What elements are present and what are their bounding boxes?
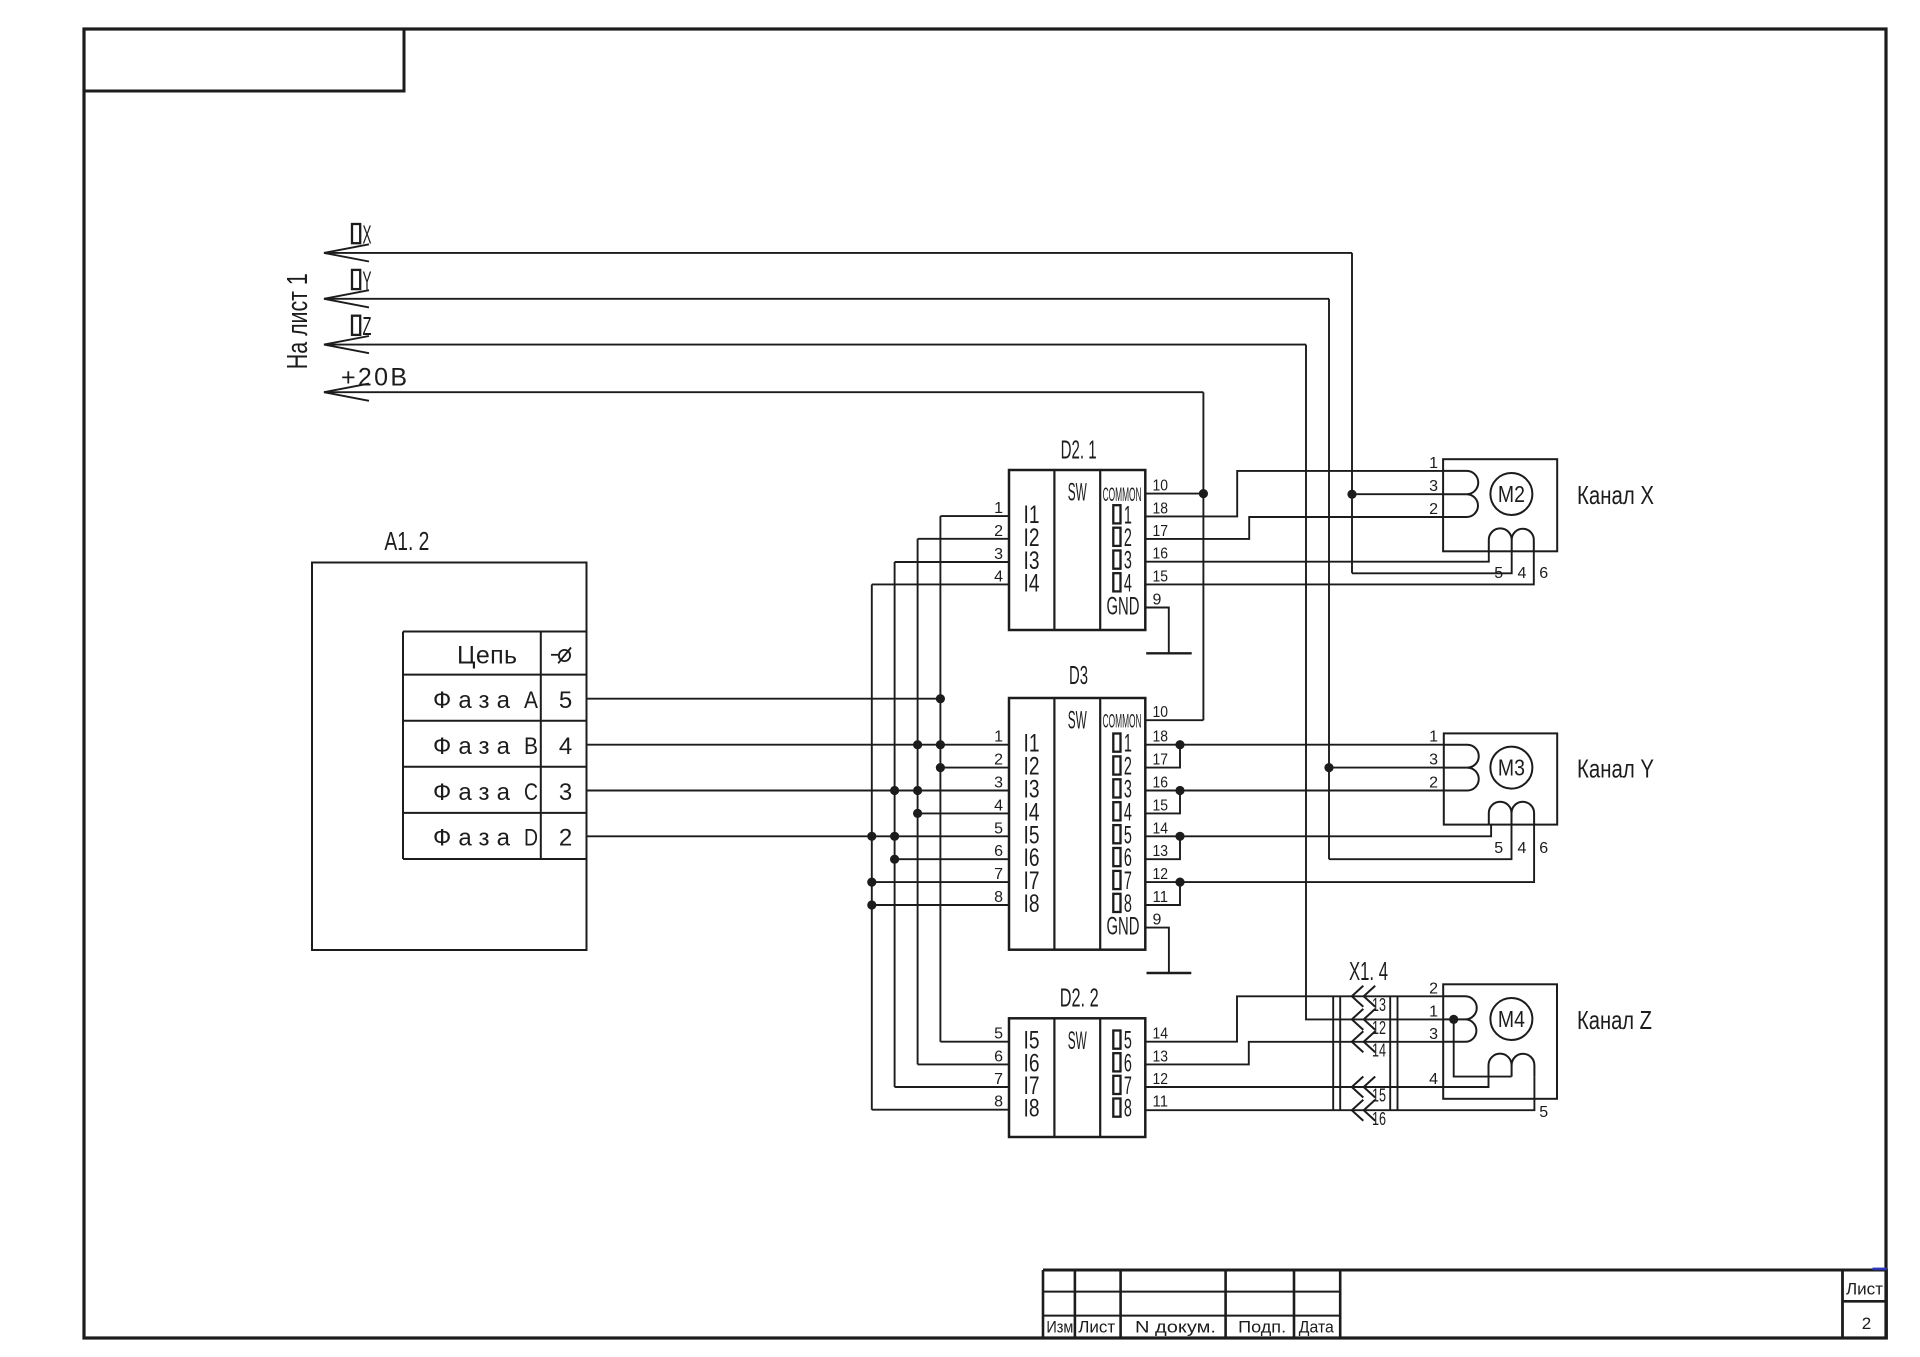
svg-text:SW: SW [1068,1027,1087,1055]
svg-text:8: 8 [994,1094,1003,1111]
blue artifact line [1873,1268,1887,1271]
connector block A1.2 outline [312,563,587,951]
svg-text:7: 7 [994,866,1003,883]
svg-text:4: 4 [994,568,1003,585]
svg-text:2: 2 [1429,980,1438,997]
wire D3 pin 9 to ground [1145,928,1169,973]
svg-text:2: 2 [994,752,1003,769]
wire D2.1 input pin 3 [895,561,1009,563]
svg-text:4: 4 [1518,840,1527,857]
wire D3 pin 13 join [1145,836,1180,859]
wire M2 pin 4 center tap bottom [1352,551,1512,573]
connector X1.4 rails [1333,996,1397,1111]
wire phase A from A1.2 [587,698,941,700]
svg-text:Фаза: Фаза [433,825,511,852]
svg-text:5: 5 [1494,565,1503,582]
svg-text:GND: GND [1107,913,1140,941]
net FZ arrowhead [324,336,369,353]
wire D3 pin 10 COMMON [1145,719,1203,721]
svg-text:D: D [524,825,538,852]
net FY label [352,270,360,289]
svg-text:Цепь: Цепь [457,642,517,670]
svg-text:15: 15 [1372,1086,1386,1106]
wire D2.2 input pin 6 [918,1063,1009,1065]
D3 output label F7 [1113,871,1120,889]
D2.2 output label F8 [1113,1099,1120,1117]
svg-text:А1. 2: А1. 2 [384,526,429,556]
svg-text:Канал Y: Канал Y [1577,753,1654,783]
D3 output label F5 [1113,825,1120,843]
wire +20V vertical bus [1202,392,1204,720]
wire D2.2 input pin 7 [895,1086,1009,1088]
svg-text:13: 13 [1153,1048,1169,1065]
svg-text:13: 13 [1153,843,1169,860]
svg-text:I4: I4 [1024,569,1040,597]
wire D3 pin 11 join [1145,882,1180,905]
D3 input stub pin 6 [895,858,1009,860]
wire D2.1 pin 16 to M2 pin 5 [1145,551,1489,561]
svg-text:6: 6 [1539,840,1548,857]
svg-text:17: 17 [1153,752,1169,769]
stepper motor M4 body [1443,984,1557,1099]
D2.1 output label F2 [1113,528,1120,546]
wire FZ vertical to X1.4 [1306,345,1443,1020]
wire D2.1 input pin 2 [918,538,1009,540]
X1.4 contact 13 [1352,986,1364,1007]
svg-text:COMMON: COMMON [1103,712,1142,733]
svg-text:На лист 1: На лист 1 [282,273,314,369]
top-left stamp box [84,29,404,91]
svg-text:Фаза: Фаза [433,687,511,714]
junction D3 pins 16/15 [1175,786,1184,795]
svg-text:B: B [524,733,538,760]
wire phase B from A1.2 to D3 pin 1 [587,744,1010,746]
svg-text:М4: М4 [1498,1006,1525,1032]
junction D3 pins 12/11 [1175,878,1184,887]
bus vertical net phase D [871,584,873,1109]
wire D3 pin 17 join [1145,745,1180,768]
wire D2.1 pin 15 to M2 pin 6 [1145,551,1534,584]
wire phase C from A1.2 to D3 pin 3 [587,790,1010,792]
svg-text:7: 7 [994,1071,1003,1088]
stepper motor M3 [1444,733,1557,824]
svg-text:8: 8 [994,889,1003,906]
svg-text:Канал X: Канал X [1577,480,1654,510]
wire D3 pin 14 to M3 pin 5 [1145,825,1491,837]
wire D2.1 input pin 4 [872,583,1009,585]
D2.2 output label F7 [1113,1076,1120,1094]
svg-text:10: 10 [1153,704,1169,721]
svg-text:2: 2 [1429,775,1438,792]
D3 input stub pin 4 [918,812,1009,814]
svg-text:D2. 1: D2. 1 [1061,434,1097,464]
A1.2 pin table grid [403,632,587,860]
wire D2.2 pin 13 to X1.4 contact 14 [1145,1042,1443,1065]
net +20V arrowhead [324,384,369,401]
svg-text:Лист: Лист [1846,1280,1883,1299]
svg-text:9: 9 [1153,592,1162,609]
wire FY vertical to M3 [1328,299,1330,859]
wire D2.1 pin 17 to M2 pin 2 [1145,517,1443,539]
svg-text:2: 2 [994,523,1003,540]
svg-text:М2: М2 [1498,481,1525,507]
net FX wire to sheet 1 [324,252,1352,254]
bus vertical net phase B [917,539,919,1065]
wire D3 pin 18 to M3 pin 1 [1145,744,1444,746]
svg-text:X: X [363,219,372,249]
stepper motor M2 [1443,459,1557,551]
svg-text:I8: I8 [1024,1095,1040,1123]
svg-text:Канал Z: Канал Z [1577,1005,1652,1035]
svg-text:3: 3 [994,546,1003,563]
junction dots on phase bus [936,694,945,703]
svg-text:1: 1 [1429,455,1438,472]
ground symbol for D2.1 [1146,652,1192,654]
svg-text:Фаза: Фаза [433,779,511,806]
svg-text:+20В: +20В [341,364,407,392]
M4 center tap link to bottom winding [1454,1019,1512,1076]
svg-text:14: 14 [1153,820,1169,837]
D2.2 output label F5 [1113,1031,1120,1049]
X1.4 contact 16 [1352,1100,1364,1121]
junction FZ / M4 pin 1 [1449,1015,1458,1024]
svg-text:I8: I8 [1024,890,1040,918]
svg-text:Изм: Изм [1046,1318,1073,1337]
svg-text:5: 5 [994,820,1003,837]
svg-text:SW: SW [1068,707,1087,735]
svg-text:COMMON: COMMON [1103,485,1142,506]
svg-text:2: 2 [1862,1314,1871,1333]
D3 output label F2 [1113,756,1120,774]
D3 output label F1 [1113,734,1120,752]
svg-text:16: 16 [1372,1109,1386,1129]
junction D3 pins 14/13 [1175,832,1184,841]
wire D2.1 input pin 1 [940,515,1009,517]
svg-text:М3: М3 [1498,755,1525,781]
wire D3 pin 15 join [1145,791,1180,814]
X1.4 contact 14 [1352,1031,1364,1052]
net FY wire to sheet 1 [324,298,1329,300]
M4 bottom winding [1489,1054,1535,1077]
svg-text:15: 15 [1153,797,1169,814]
wire FX vertical to M2 [1351,253,1353,573]
svg-text:1: 1 [994,729,1003,746]
svg-text:12: 12 [1153,1071,1169,1088]
svg-text:4: 4 [1518,565,1527,582]
net +20V wire to sheet 1 [324,391,1203,393]
wire M3 pin 4 center tap bottom [1329,825,1512,860]
svg-text:2: 2 [559,825,572,852]
wire D2.2 input pin 8 [872,1109,1009,1111]
X1.4 contact 15 [1352,1077,1364,1098]
svg-text:12: 12 [1153,866,1169,883]
bus vertical net phase A [939,516,941,1042]
net FX label [352,224,360,243]
wire D2.1 pin 10 COMMON [1145,493,1203,495]
svg-text:13: 13 [1372,995,1386,1015]
net FZ label [352,316,360,335]
sheet number box [1843,1270,1887,1338]
net FY arrowhead [324,290,369,307]
wire D2.2 input pin 5 [940,1041,1009,1043]
wire M2 pin 3 center tap [1352,493,1443,495]
svg-text:2: 2 [1429,501,1438,518]
D3 output label F4 [1113,802,1120,820]
svg-text:17: 17 [1153,523,1169,540]
svg-text:11: 11 [1153,1094,1169,1111]
svg-text:3: 3 [994,775,1003,792]
junction +20V / D2.1 COMMON [1199,489,1208,498]
D2.1 output label F1 [1113,505,1120,523]
X1.4 contact 12 [1352,1009,1364,1030]
title block top rule [1043,1269,1887,1272]
junction D3 pins 18/17 [1175,740,1184,749]
svg-text:8: 8 [1124,1095,1132,1123]
D3 input stub pin 2 [940,767,1009,769]
D2.2 output label F6 [1113,1053,1120,1071]
revision table [1043,1270,1340,1338]
bus vertical net phase C [894,562,896,1087]
svg-text:10: 10 [1153,478,1169,495]
wire D2.1 pin 18 to M2 pin 1 [1145,471,1443,517]
svg-text:12: 12 [1372,1018,1386,1038]
A1.2 table header contact symbol [551,648,571,664]
svg-text:18: 18 [1153,500,1169,517]
svg-text:3: 3 [1429,752,1438,769]
svg-text:Y: Y [363,265,372,295]
D3 input stub pin 7 [872,881,1009,883]
svg-text:5: 5 [994,1026,1003,1043]
svg-text:9: 9 [1153,912,1162,929]
wire D3 pin 12 to M3 pin 6 [1145,825,1534,883]
svg-text:Z: Z [363,311,372,341]
net FZ wire to sheet 1 [324,344,1306,346]
svg-text:A: A [524,687,538,714]
wire phase D from A1.2 to D3 pin 5 [587,835,1010,837]
D3 output label F3 [1113,779,1120,797]
switch chip D2.1 body [1009,470,1145,630]
svg-text:15: 15 [1153,568,1169,585]
svg-text:14: 14 [1372,1041,1386,1061]
svg-text:D2. 2: D2. 2 [1060,982,1099,1012]
D3 output label F8 [1113,894,1120,912]
svg-text:D3: D3 [1069,660,1088,690]
wire D2.2 pin 12 to X1.4 contact 15 / M4 pin 4 [1145,1077,1488,1087]
svg-text:5: 5 [559,687,572,714]
D2.1 output label F4 [1113,573,1120,591]
D3 output label F6 [1113,848,1120,866]
M4 left winding [1443,996,1477,1042]
svg-text:Фаза: Фаза [433,733,511,760]
svg-text:6: 6 [994,843,1003,860]
D2.1 output label F3 [1113,551,1120,569]
junction FX / M2 pin 3 [1347,490,1356,499]
svg-text:14: 14 [1153,1026,1169,1043]
M4 motor circle [1490,998,1532,1040]
svg-text:N докум.: N докум. [1135,1318,1216,1337]
svg-text:18: 18 [1153,729,1169,746]
svg-text:5: 5 [1539,1104,1548,1121]
svg-text:3: 3 [559,779,572,806]
svg-text:C: C [524,779,538,806]
svg-text:3: 3 [1429,1026,1438,1043]
wire M3 pin 3 center tap [1329,767,1444,769]
svg-text:1: 1 [994,500,1003,517]
svg-text:16: 16 [1153,775,1169,792]
svg-text:SW: SW [1068,479,1087,507]
svg-text:X1. 4: X1. 4 [1349,956,1388,986]
svg-text:Подп.: Подп. [1238,1318,1286,1337]
svg-text:1: 1 [1429,729,1438,746]
svg-text:3: 3 [1429,478,1438,495]
wire D2.1 pin 9 to ground [1145,608,1169,654]
svg-text:11: 11 [1153,889,1169,906]
svg-text:4: 4 [994,797,1003,814]
switch chip D2.2 body [1009,1018,1145,1137]
wire D2.2 pin 14 to X1.4 contact 13 [1145,996,1443,1041]
switch chip D3 body [1009,698,1145,950]
wire D2.2 pin 11 to X1.4 contact 16 / M4 pin 5 [1145,1077,1534,1111]
net FX arrowhead [324,244,369,261]
D3 input stub pin 8 [872,904,1009,906]
svg-text:Лист: Лист [1078,1318,1115,1337]
svg-text:5: 5 [1494,840,1503,857]
svg-text:4: 4 [559,733,572,760]
ground symbol for D3 [1147,972,1192,974]
svg-text:GND: GND [1107,593,1140,621]
svg-text:Дата: Дата [1299,1318,1334,1337]
svg-text:1: 1 [1429,1003,1438,1020]
svg-text:6: 6 [994,1048,1003,1065]
wire D3 pin 16 to M3 pin 2 [1145,790,1444,792]
svg-text:4: 4 [1429,1071,1438,1088]
junction FY / M3 pin 3 [1324,763,1333,772]
svg-text:16: 16 [1153,546,1169,563]
svg-text:6: 6 [1539,565,1548,582]
